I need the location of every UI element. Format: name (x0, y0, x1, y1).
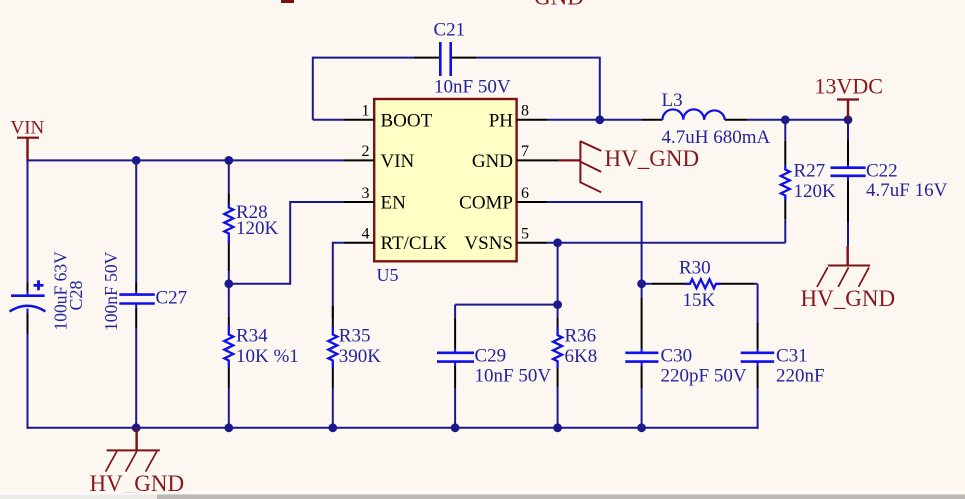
capacitor C29 (437, 305, 551, 429)
svg-text:RT/CLK: RT/CLK (381, 233, 448, 254)
resistor R27 (781, 120, 836, 243)
pin 5 VSNS (464, 226, 547, 255)
bottom scrollbar track (0, 494, 965, 499)
resistor R36 (553, 305, 597, 429)
svg-text:C27: C27 (156, 288, 188, 309)
svg-text:C30: C30 (661, 345, 693, 366)
resistor R30 (642, 258, 758, 312)
svg-text:120K: 120K (236, 218, 279, 239)
node VIN/C27 (132, 156, 141, 165)
node 13VDC/C22 (844, 115, 853, 124)
svg-text:5: 5 (521, 226, 529, 243)
pin 3 EN (344, 185, 406, 214)
svg-text:4.7uF 16V: 4.7uF 16V (866, 180, 948, 201)
capacitor C21 (414, 20, 511, 98)
svg-text:10nF 50V: 10nF 50V (475, 366, 552, 387)
svg-text:3: 3 (362, 185, 370, 202)
svg-text:U5: U5 (377, 265, 399, 285)
pin 4 RT/CLK (344, 226, 447, 255)
IC U5 body (374, 99, 516, 261)
wire VSNS down to C29 row (557, 243, 559, 305)
svg-text:HV_GND: HV_GND (801, 286, 896, 311)
bottom scrollbar thumb (157, 494, 965, 499)
node bus/C30 (637, 423, 646, 432)
node bus/C27 (132, 423, 141, 432)
svg-text:6K8: 6K8 (565, 346, 598, 367)
capacitor C27 (101, 160, 187, 428)
wire C21 loop right (477, 58, 600, 120)
svg-text:6: 6 (521, 185, 529, 202)
svg-text:BOOT: BOOT (381, 110, 433, 131)
wire VSNS row (547, 242, 785, 244)
svg-text:EN: EN (381, 192, 407, 213)
svg-text:15K: 15K (683, 290, 716, 311)
svg-text:120K: 120K (794, 181, 837, 202)
wire VIN row (28, 159, 345, 161)
node bus/R34 (224, 423, 233, 432)
top clipped underscore mark (281, 0, 294, 3)
svg-text:10K %1: 10K %1 (236, 346, 299, 367)
capacitor C31 (741, 284, 825, 429)
resistor R28 (224, 160, 278, 283)
wire EN jog (229, 202, 344, 284)
pin 8 PH (489, 103, 547, 132)
node bus/R36 (553, 423, 562, 432)
wire C29 top row (455, 304, 557, 306)
svg-text:GND: GND (534, 0, 584, 10)
svg-text:COMP: COMP (459, 192, 513, 213)
svg-text:L3: L3 (662, 90, 683, 111)
power port 13VDC (815, 74, 883, 122)
node VSNS (553, 238, 562, 247)
svg-text:C31: C31 (776, 345, 808, 366)
resistor R35 (328, 306, 381, 429)
svg-text:C21: C21 (434, 20, 466, 41)
node bus/R35 (328, 423, 337, 432)
svg-text:390K: 390K (339, 346, 382, 367)
svg-text:8: 8 (521, 103, 529, 120)
svg-text:13VDC: 13VDC (815, 74, 883, 99)
power port HV_GND (bottom) (90, 428, 185, 496)
inductor L3 (642, 90, 771, 148)
bottom scrollbar highlight line (0, 493, 965, 495)
power port HV_GND (below C22) (801, 246, 896, 311)
node bus/C29 (451, 423, 460, 432)
svg-text:4: 4 (362, 226, 370, 243)
wire L3 to 13VDC (747, 119, 848, 121)
resistor R34 (224, 284, 299, 429)
svg-text:220nF: 220nF (776, 366, 825, 387)
svg-text:HV_GND: HV_GND (90, 471, 185, 496)
capacitor C28 (10, 159, 87, 428)
svg-text:R34: R34 (236, 326, 268, 347)
svg-text:1: 1 (362, 103, 370, 120)
svg-text:R30: R30 (679, 258, 711, 279)
svg-text:220pF 50V: 220pF 50V (661, 366, 747, 387)
capacitor C30 (625, 284, 747, 429)
node VIN/R28 (224, 156, 233, 165)
pin 7 GND (472, 143, 558, 172)
svg-text:R27: R27 (794, 161, 826, 182)
wire RT/CLK to R35 (333, 243, 344, 317)
svg-text:R36: R36 (565, 326, 597, 347)
node R28/R34/EN (224, 279, 233, 288)
node C29/R36 (553, 300, 562, 309)
wire ground bus (27, 427, 759, 429)
svg-text:VSNS: VSNS (464, 233, 513, 254)
node L3/R27 (781, 115, 790, 124)
node COMP/R30/C30 (637, 279, 646, 288)
wire C21 loop left (313, 58, 414, 120)
wire PH to 13VDC rail (547, 119, 642, 121)
svg-text:2: 2 (362, 143, 370, 160)
svg-text:VIN: VIN (11, 118, 45, 139)
wire COMP to C30 column (547, 202, 642, 284)
node PH/C21 (595, 115, 604, 124)
pin 6 COMP (459, 185, 547, 214)
capacitor C22 (831, 120, 948, 247)
svg-text:C29: C29 (475, 345, 507, 366)
wire BOOT to C21 loop (313, 119, 344, 121)
svg-text:R35: R35 (339, 326, 371, 347)
power port VIN (11, 118, 45, 162)
pin 1 BOOT (344, 103, 433, 132)
svg-text:10nF 50V: 10nF 50V (434, 77, 511, 98)
svg-text:C22: C22 (866, 161, 898, 182)
svg-text:7: 7 (521, 143, 529, 160)
svg-text:GND: GND (472, 151, 513, 172)
svg-text:PH: PH (489, 110, 514, 131)
svg-text:100nF 50V: 100nF 50V (101, 251, 121, 331)
svg-text:VIN: VIN (381, 151, 415, 172)
svg-text:HV_GND: HV_GND (605, 146, 700, 171)
svg-text:C28: C28 (66, 280, 86, 310)
pin 2 VIN (344, 143, 415, 172)
power port HV_GND (pin 7) (558, 141, 699, 192)
